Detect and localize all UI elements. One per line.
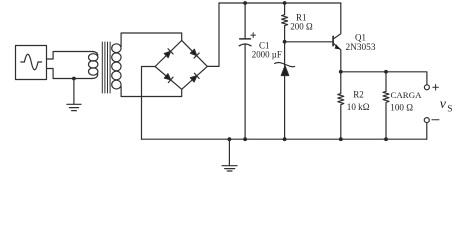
- svg-text:v: v: [440, 97, 447, 112]
- diode D4 (bottom-right edge): [190, 73, 199, 82]
- wire bottom ground stem: [228, 139, 230, 165]
- terminal - circle: [424, 118, 429, 123]
- resistor CARGA (load): [383, 72, 389, 139]
- wire zener rail: [284, 42, 286, 139]
- diode D2 (top-right edge): [190, 49, 199, 58]
- wire source lower terminal: [47, 69, 93, 79]
- zener diode D5 cathode bar: [275, 62, 295, 66]
- terminal + circle: [424, 85, 429, 90]
- node C1 bottom: [243, 137, 247, 141]
- transformer T1 secondary winding: [112, 44, 121, 89]
- node R1-zener-base junction: [283, 40, 287, 44]
- svg-text:200 Ω: 200 Ω: [290, 22, 313, 32]
- plus sign: [433, 85, 439, 91]
- svg-text:S: S: [447, 104, 452, 114]
- zener diode D5 anode triangle: [281, 66, 288, 76]
- diode D3 (left-bottom edge): [164, 74, 173, 83]
- wire bridge left vertex down: [142, 67, 156, 140]
- svg-text:10 kΩ: 10 kΩ: [347, 102, 370, 112]
- svg-text:2000 µF: 2000 µF: [252, 50, 282, 60]
- svg-text:Q1: Q1: [355, 32, 366, 42]
- wire bottom rail: [142, 138, 427, 140]
- diode D1 (left-top edge): [164, 49, 173, 58]
- wire top rail: [219, 2, 341, 4]
- wire base: [285, 41, 333, 43]
- node zener bottom: [283, 137, 287, 141]
- wire C1 rail upper: [244, 3, 246, 38]
- transformer T1 core: [102, 42, 110, 93]
- transistor Q1 base bar: [332, 36, 334, 45]
- svg-text:100 Ω: 100 Ω: [390, 103, 413, 113]
- node R2 bottom: [339, 137, 343, 141]
- capacitor C1: [239, 33, 255, 46]
- svg-text:R2: R2: [353, 90, 364, 100]
- node bottom ground junction: [228, 137, 232, 141]
- node R1 top: [283, 1, 287, 5]
- AC source V1 box: [16, 46, 47, 80]
- resistor R1: [282, 3, 288, 42]
- node load bottom: [384, 137, 388, 141]
- node primary-ground junction: [72, 77, 76, 81]
- transistor Q1 collector: [333, 3, 340, 39]
- transistor Q1 emitter arrow: [335, 44, 341, 49]
- wire emitter to output: [341, 72, 427, 85]
- AC source sine waveform: [21, 54, 42, 70]
- wire C1 rail lower: [244, 45, 246, 140]
- transistor Q1 emitter: [333, 43, 340, 72]
- node emitter junction: [339, 70, 343, 74]
- resistor R2: [338, 72, 344, 139]
- wire minus terminal to bottom rail: [426, 123, 428, 140]
- svg-text:2N3053: 2N3053: [346, 43, 376, 53]
- wire bridge right vertex to top rail: [207, 3, 219, 66]
- node load top: [384, 70, 388, 74]
- wire secondary top to bridge top: [121, 33, 182, 47]
- wire source upper terminal: [47, 52, 93, 60]
- wire secondary bottom to bridge bottom: [121, 87, 182, 97]
- transformer T1 primary winding: [89, 52, 98, 79]
- wire ground stem: [73, 79, 75, 104]
- bridge rectifier diamond: [155, 40, 207, 89]
- ground GND1: [67, 104, 81, 110]
- svg-text:CARGA: CARGA: [391, 90, 423, 100]
- ground GND2: [222, 166, 237, 171]
- node C1 top: [243, 1, 247, 5]
- minus sign: [432, 119, 439, 121]
